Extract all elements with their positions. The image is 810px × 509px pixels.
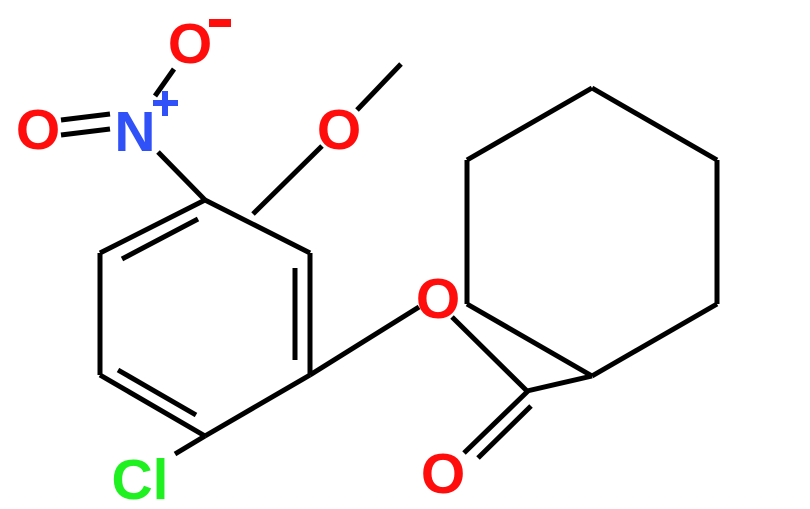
svg-text:O: O [317, 98, 361, 162]
svg-text:O: O [16, 98, 60, 162]
svg-text:O: O [416, 267, 460, 331]
svg-text:O: O [168, 12, 212, 76]
svg-text:Cl: Cl [112, 448, 169, 509]
svg-text:O: O [421, 442, 465, 506]
svg-text:N: N [114, 100, 155, 164]
